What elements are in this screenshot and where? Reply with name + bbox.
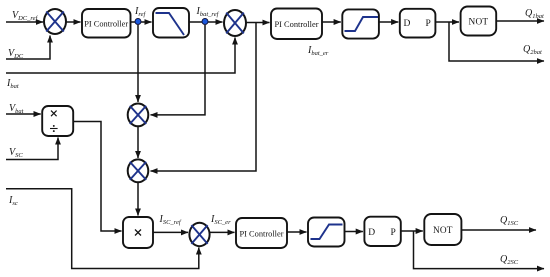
svg-text:NOT: NOT <box>469 18 489 28</box>
label Q_2SC <box>500 254 519 266</box>
block rate limiter <box>153 8 189 38</box>
label V_DC <box>8 48 24 60</box>
wire I_bat_ref drop to M1 <box>151 25 206 115</box>
wire saturation2 to DP2 <box>345 231 363 233</box>
wire M2 to X block <box>137 182 139 215</box>
label Q_1SC <box>500 215 519 227</box>
wire I_sc feedback <box>6 189 199 269</box>
label I_bat_er <box>307 45 329 57</box>
node I_bat_ref <box>202 19 208 25</box>
wire branch Q_2bat <box>449 22 544 61</box>
svg-text:NOT: NOT <box>433 226 453 236</box>
summing junction S3 <box>189 223 209 246</box>
wire S1 to PI1 <box>66 21 81 23</box>
wire PI3 to saturation2 <box>287 231 307 233</box>
label Q_2bat <box>523 44 542 56</box>
label I_bat <box>6 78 19 90</box>
svg-text:PI Controller: PI Controller <box>240 230 284 239</box>
wire DP1 to NOT1 <box>435 21 459 23</box>
block D-P PWM 1 <box>400 9 436 38</box>
wire M1 to M2 <box>137 126 139 158</box>
svg-text:P: P <box>391 228 396 238</box>
wire PI1 to rate limiter <box>131 21 152 23</box>
wire rate limiter to S2 <box>189 21 223 23</box>
summing junction S2 <box>224 10 246 36</box>
label I_bat_ref <box>196 6 220 18</box>
block PI Controller U2 <box>271 9 322 40</box>
wire Q_1SC output <box>461 229 536 231</box>
label V_DC_ref <box>12 10 39 22</box>
wire PI2 to saturation1 <box>322 21 341 23</box>
block NOT 1 <box>461 7 497 36</box>
svg-text:PI Controller: PI Controller <box>84 20 128 29</box>
node I_ref <box>135 19 141 25</box>
label I_SC_ref <box>159 214 182 226</box>
block saturation 1 <box>342 9 379 38</box>
block X multiplier <box>123 217 153 248</box>
wire DP2 to NOT2 <box>401 230 423 232</box>
wire saturation1 to DP1 <box>379 21 398 23</box>
label I_SC_er <box>210 214 231 226</box>
wire S2 to PI2 <box>246 22 270 24</box>
wire branch to M2 <box>151 23 257 172</box>
label I_ref <box>134 6 147 18</box>
summing junction S1 <box>44 9 66 34</box>
wire I_ref drop to M1 <box>137 25 139 102</box>
block PI Controller U1 <box>82 9 131 38</box>
block multiply-divide <box>42 106 73 136</box>
svg-text:P: P <box>426 19 431 29</box>
wire S3 to PI3 <box>210 231 235 233</box>
label I_sc <box>8 195 18 207</box>
svg-text:D: D <box>368 228 375 238</box>
multiplier M1 <box>128 104 149 127</box>
svg-text:D: D <box>404 19 411 29</box>
label V_SC <box>9 147 23 159</box>
wire V_DC_ref input <box>6 21 43 23</box>
wire ratio to X block <box>73 122 121 232</box>
wire V_DC feedback <box>6 36 50 60</box>
block NOT 2 <box>424 214 461 245</box>
block PI Controller U3 <box>236 218 287 248</box>
label V_bat <box>9 103 24 115</box>
block D-P PWM 2 <box>364 217 400 246</box>
svg-text:PI Controller: PI Controller <box>275 20 319 29</box>
multiplier M2 <box>128 159 149 182</box>
block saturation 2 <box>308 218 345 247</box>
wire X block to S3 <box>153 231 188 233</box>
wire Q_1bat output <box>496 20 544 22</box>
label Q_1bat <box>525 8 544 20</box>
wire I_bat feedback rail <box>6 38 235 74</box>
wire V_bat input <box>6 113 41 115</box>
wire V_SC input <box>6 138 58 160</box>
wire branch Q_2SC <box>414 231 545 269</box>
